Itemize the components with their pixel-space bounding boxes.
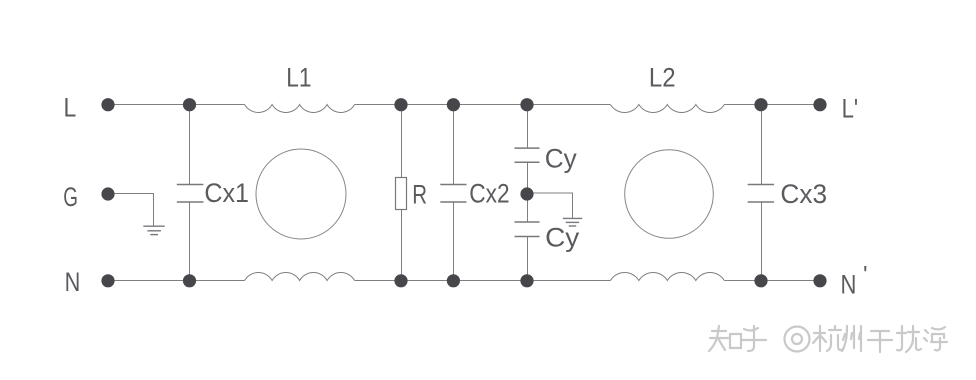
svg-text:N: N [841, 270, 857, 300]
svg-text:L2: L2 [649, 62, 676, 92]
svg-text:Cx3: Cx3 [780, 179, 827, 209]
svg-text:G: G [63, 182, 78, 212]
svg-text:L': L' [842, 94, 859, 124]
svg-text:': ' [863, 262, 868, 289]
svg-text:L: L [64, 92, 77, 122]
svg-text:Cx1: Cx1 [204, 178, 249, 208]
svg-text:L1: L1 [286, 62, 311, 92]
svg-text:Cy: Cy [545, 144, 578, 174]
svg-text:R: R [412, 179, 427, 209]
svg-text:N: N [65, 267, 81, 297]
svg-text:Cx2: Cx2 [469, 179, 509, 209]
svg-text:Cy: Cy [545, 223, 580, 253]
